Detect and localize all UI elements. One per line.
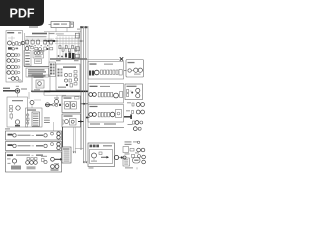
label: note right 3 xyxy=(44,122,50,123)
box: br small xyxy=(123,147,129,153)
wire: rail y95 xyxy=(44,94,66,96)
relay RY4 xyxy=(44,39,47,46)
jack banner-tape A-4 xyxy=(57,136,60,139)
jack J33 xyxy=(51,165,55,169)
wire: vertical pair a xyxy=(73,127,75,152)
diode D4 xyxy=(27,122,29,124)
label: figure title xyxy=(29,26,38,27)
node d xyxy=(121,156,123,158)
diode D3 xyxy=(27,114,29,116)
resistor Rg6 xyxy=(75,48,77,51)
resistor Rq1 xyxy=(98,112,100,117)
transformer T1 xyxy=(16,106,21,110)
jack J21 xyxy=(141,148,145,152)
relay RY9 xyxy=(70,119,77,126)
node f xyxy=(140,121,143,124)
label: below control xyxy=(89,167,94,168)
resistor Ro6 xyxy=(116,70,118,74)
node rail-b xyxy=(53,40,55,42)
resistor R17 xyxy=(74,83,77,86)
label: relay A title xyxy=(64,97,80,99)
label: aux c xyxy=(128,124,133,125)
label: legend row 1 xyxy=(28,69,45,70)
bus wire 4 xyxy=(87,26,89,128)
label: switch title xyxy=(27,109,36,110)
wire: vertical v4 xyxy=(65,37,67,60)
node mid2 xyxy=(34,45,35,46)
wire: mains drop 1 xyxy=(55,28,57,32)
terminal block TB2 xyxy=(120,92,123,98)
wire: vertical pair b xyxy=(74,127,76,152)
jack J10 xyxy=(134,68,138,72)
jack J20 xyxy=(137,148,141,152)
terminal block TB1 xyxy=(119,70,122,76)
wire: vertical v1 xyxy=(56,37,58,60)
resistor Rg2 xyxy=(62,48,64,51)
box: protection unit xyxy=(32,75,50,92)
label: sw row 6 xyxy=(33,124,38,127)
capacitor C52 xyxy=(35,158,38,161)
wire: thick supply bar xyxy=(31,90,88,92)
node e xyxy=(131,92,133,94)
box: banner tape A xyxy=(6,131,62,140)
label: fuse value xyxy=(21,88,27,89)
inductor L2 xyxy=(114,93,119,98)
node grid-b xyxy=(61,56,63,58)
transistor Q6 xyxy=(55,100,59,104)
label: legend row 2 xyxy=(28,71,46,72)
resistor Rq3 xyxy=(104,112,106,117)
box: aux right c xyxy=(75,54,79,58)
capacitor C13 xyxy=(64,79,67,82)
wire: hp dash xyxy=(132,70,134,72)
box: connector bank xyxy=(49,62,56,77)
resistor Rq2 xyxy=(101,112,103,117)
capacitor C1 xyxy=(12,43,15,46)
wire: stub y117.5 xyxy=(86,117,90,119)
box: main amp xyxy=(56,64,80,90)
label: brl row 1 xyxy=(124,158,128,161)
label: under rail b xyxy=(74,60,79,61)
box: divider xyxy=(35,59,42,64)
bus wire 1 xyxy=(80,26,82,150)
label: list title xyxy=(63,148,70,149)
wire: relay B ticks xyxy=(63,119,65,125)
capacitor C12 xyxy=(64,73,67,76)
wire: block left edge xyxy=(24,33,26,66)
wire: h-rail 3 xyxy=(55,43,80,45)
contact pair 1 xyxy=(50,64,55,66)
jack banner-tape B-2 xyxy=(44,144,47,147)
box: br lower xyxy=(123,158,130,166)
fuse X mark xyxy=(120,57,123,60)
node mid4 xyxy=(47,45,48,46)
label: sw row 3 xyxy=(33,117,38,120)
resistor R30 xyxy=(99,152,102,155)
PDF badge text xyxy=(10,7,35,21)
resistor Ro4 xyxy=(110,70,112,74)
contact grid row 2 xyxy=(58,72,63,74)
label: under rail a xyxy=(56,60,61,61)
label: mid smudge b xyxy=(38,50,45,53)
connector X1 end cap xyxy=(70,22,74,27)
wire: stub y148.5 xyxy=(75,148,84,150)
capacitor C7 xyxy=(31,47,34,49)
label: br mid xyxy=(125,153,130,154)
resistor R50 xyxy=(42,159,45,162)
label: phono bold xyxy=(7,154,13,156)
wire: vertical v6 xyxy=(71,37,73,60)
resistor R16 xyxy=(74,75,77,78)
box: relay inner xyxy=(36,80,44,88)
wire: vertical v2 xyxy=(59,37,61,60)
label: bus tag xyxy=(77,29,80,30)
resistor R9 xyxy=(50,48,53,50)
resistor R12 xyxy=(69,74,72,77)
wire: link up xyxy=(34,99,41,101)
box: aux right a xyxy=(75,33,79,38)
resistor Rg3 xyxy=(65,46,67,49)
box: input module A1 xyxy=(6,31,23,83)
wire: vertical v5 xyxy=(68,37,70,60)
bus arrowhead 1 xyxy=(83,162,85,164)
label: banner text2 tape A xyxy=(36,135,43,136)
wire: banner dash tape A xyxy=(32,134,35,136)
capacitor C31 xyxy=(123,156,126,159)
capacitor bank C9 xyxy=(65,53,67,57)
wire: stub y103.8 xyxy=(81,103,89,105)
relay RY7 xyxy=(65,102,71,110)
wire: vertical v8 xyxy=(77,37,79,60)
capacitor C51 xyxy=(31,158,34,161)
jack J30 xyxy=(26,161,30,165)
jack banner-tape A-2 xyxy=(44,134,47,137)
wire: dark rail y41 xyxy=(25,40,84,42)
label: q6 tag xyxy=(54,98,59,99)
jack J22 xyxy=(142,155,146,159)
wire stub left of strip X1 xyxy=(49,24,52,26)
node h xyxy=(52,104,54,106)
wire: module out xyxy=(24,42,27,44)
wire: chain dash xyxy=(119,157,121,159)
label: main amp title xyxy=(63,66,76,68)
resistor R33 xyxy=(127,90,129,93)
label: br note2 xyxy=(125,144,132,145)
arrowhead pair a xyxy=(73,152,75,154)
regulator VR1 xyxy=(15,120,20,127)
label: osc note xyxy=(35,56,42,57)
capacitor C50 xyxy=(27,158,30,161)
wire: h-rail 1 xyxy=(55,37,80,39)
label: power supply title xyxy=(12,100,23,101)
jack J31 xyxy=(30,161,34,165)
wire: phono dash xyxy=(32,154,34,156)
ground hatch 1 xyxy=(11,166,21,170)
label: phono text xyxy=(16,155,30,156)
label: reg row 4 xyxy=(25,61,29,62)
label: note right 1 xyxy=(44,117,50,118)
label: supply sub xyxy=(26,36,47,37)
resistor R35 xyxy=(132,103,134,106)
box: driver inner xyxy=(116,110,122,118)
wire: vertical v3 xyxy=(62,37,64,60)
label: q8 tag xyxy=(91,161,97,162)
inductor L3 xyxy=(110,112,115,117)
wire: mic link xyxy=(130,90,132,92)
node n3 xyxy=(17,66,20,68)
transistor Q8 xyxy=(92,153,97,161)
resistor R8 xyxy=(44,47,47,50)
wire: drop x29 xyxy=(28,92,30,99)
box: output unit R xyxy=(88,84,124,104)
diode D5 xyxy=(59,104,61,106)
box: speaker relay B xyxy=(62,114,81,127)
crystal Y1 xyxy=(34,52,42,55)
capacitor bank C10 xyxy=(68,53,71,59)
resistor Rq4 xyxy=(108,112,110,117)
label: supply unit xyxy=(32,33,55,35)
label: fuse top xyxy=(16,86,19,87)
label: br bottom xyxy=(125,167,137,169)
resistor Rg4 xyxy=(68,49,70,52)
jack J16 xyxy=(136,110,140,114)
dip switch S1 xyxy=(90,145,100,148)
contact pair 2 xyxy=(50,67,55,69)
label: list row 1 xyxy=(64,150,70,153)
rectifier D1 xyxy=(10,106,13,112)
node mid3 xyxy=(41,45,42,46)
node n4 xyxy=(17,71,20,73)
capacitor C14 xyxy=(74,78,77,81)
label: output R title xyxy=(90,86,111,87)
resistor Ro1 xyxy=(101,70,103,74)
capacitor bank C20 xyxy=(89,71,91,76)
jack J3 xyxy=(7,65,15,69)
box: legend xyxy=(26,68,49,77)
node b xyxy=(47,48,49,50)
label: list row 3 xyxy=(64,154,70,157)
wire: under rule xyxy=(88,127,124,129)
jack J15 xyxy=(141,103,145,107)
wire: top link xyxy=(86,59,120,61)
label: reg row 1 xyxy=(25,52,30,53)
capacitor C33 xyxy=(128,69,131,72)
label: legend row 3 xyxy=(28,73,43,74)
label: brl row 3 xyxy=(124,163,128,166)
wire: stub y41 xyxy=(79,40,84,42)
capacitor C5 xyxy=(10,112,13,120)
label: br note3 xyxy=(133,141,140,143)
jack J0 xyxy=(21,41,24,44)
resistor R36 xyxy=(132,111,134,114)
svg-text:PDF: PDF xyxy=(10,7,35,21)
relay RY2 xyxy=(31,39,34,46)
contact grid row 1 xyxy=(58,69,63,71)
relay RY8 xyxy=(71,102,77,110)
wire: banner dash tape B xyxy=(32,145,35,147)
resistor Rp4 xyxy=(108,92,110,97)
resistor R4 xyxy=(15,65,17,68)
wire: mains drop 2 xyxy=(66,28,68,32)
wire: drop x57 xyxy=(56,95,58,99)
jack J4 xyxy=(7,71,15,75)
jack J5 row xyxy=(8,77,21,83)
jack J19 xyxy=(133,127,137,131)
wire: dark drop x62.5 xyxy=(62,127,64,147)
wire: signal arrow xyxy=(101,156,109,159)
box: adjust list xyxy=(62,147,71,163)
label: phono left a xyxy=(7,158,11,159)
arrowhead pair b xyxy=(74,152,76,154)
resistor R3 xyxy=(15,59,17,62)
node i xyxy=(55,104,57,106)
label: br note1 xyxy=(125,141,132,142)
capacitor C8 xyxy=(39,48,42,51)
jack J12 xyxy=(136,88,140,92)
label: list row 2 xyxy=(64,152,70,155)
jack banner-tape B-4 xyxy=(57,146,60,149)
resistor Rp3 xyxy=(104,92,106,97)
node banner-tape B xyxy=(51,143,54,146)
PDF badge background xyxy=(0,0,44,26)
resistor Ro3 xyxy=(107,70,109,74)
label: supply sub2 xyxy=(56,33,64,34)
node a xyxy=(18,43,21,46)
label: reg row 5 xyxy=(25,64,30,65)
resistor Rg1 xyxy=(59,46,61,49)
resistor Rp5 xyxy=(111,92,113,97)
box: headphone unit xyxy=(126,60,144,78)
label: reg row 2 xyxy=(25,55,29,56)
transistor Q5 xyxy=(30,101,34,109)
wire: right block edge xyxy=(78,32,80,59)
relay RY5 xyxy=(50,39,53,46)
contact pair 3 xyxy=(50,70,55,72)
capacitor bank C11 xyxy=(72,53,75,59)
wire: vertical v7 xyxy=(74,37,76,60)
label: banner bold tape A xyxy=(8,134,13,136)
node grid-a xyxy=(58,55,60,57)
jack J2 xyxy=(7,59,15,63)
jack banner-tape A-1 xyxy=(13,134,16,137)
node mid1 xyxy=(29,45,30,46)
node g xyxy=(138,127,141,130)
wire: thick right feed xyxy=(124,114,132,119)
label: headphone title xyxy=(128,62,135,63)
capacitor C53 xyxy=(44,160,47,163)
node rail-a xyxy=(47,40,49,42)
label: banner text tape B xyxy=(18,145,31,146)
label: list row 6 xyxy=(64,160,70,163)
jack banner-tape B-1 xyxy=(13,144,16,147)
box: aux right b xyxy=(75,47,79,51)
resistor R13 xyxy=(69,79,72,82)
diode D0 cluster xyxy=(8,47,18,50)
label: brl row 2 xyxy=(124,161,128,164)
bus wire 3 xyxy=(85,26,87,163)
box: oscillator xyxy=(33,51,44,59)
label: relay B title xyxy=(64,115,73,116)
wire: stub y31.8 xyxy=(79,31,81,33)
fuse F1 xyxy=(15,89,19,93)
contact pair 4 xyxy=(50,73,55,75)
label: sw row 5 xyxy=(33,121,38,124)
label: psu note xyxy=(5,128,10,129)
jack banner-tape A-3 xyxy=(57,132,60,135)
resistor R37 xyxy=(133,121,135,124)
bus arrowhead 2 xyxy=(85,162,87,164)
wire: relay rail xyxy=(25,38,54,40)
wire: fuse down xyxy=(17,93,19,97)
label: aux b xyxy=(126,110,130,111)
wire: module internal xyxy=(8,36,15,42)
capacitor bank C21 xyxy=(92,71,94,76)
transistor Q2 xyxy=(25,47,29,51)
label: sw row 1 xyxy=(33,112,38,115)
ground hatch 2 xyxy=(27,166,36,169)
box: mic unit xyxy=(125,84,143,100)
jack J32 xyxy=(34,161,38,165)
capacitor C22 xyxy=(89,93,93,97)
box: speaker relay A xyxy=(62,96,81,113)
label: note right 2 xyxy=(44,120,50,121)
resistor R14 xyxy=(70,84,73,88)
ground hatch 3 xyxy=(51,169,59,171)
box: control inner xyxy=(90,150,113,164)
node c xyxy=(66,84,68,86)
label: sw row 2 xyxy=(33,115,38,118)
capacitor C23 xyxy=(93,93,97,97)
inductor L1 xyxy=(95,70,100,75)
relay RY3 xyxy=(37,39,40,46)
oscillator G1 xyxy=(133,158,141,164)
wire: hp stub in xyxy=(124,70,127,72)
box: banner tape B xyxy=(6,142,62,151)
bus top tick 2 xyxy=(84,26,87,28)
relay RY6 xyxy=(36,82,44,86)
resistor R5 xyxy=(15,71,17,74)
wire: drop x44 xyxy=(43,92,45,96)
resistor R1 xyxy=(16,42,18,45)
motor M2 xyxy=(12,159,16,165)
box: switch unit xyxy=(26,108,43,127)
label: br tag xyxy=(135,152,139,153)
label: legend row 4 xyxy=(28,75,46,76)
label: banner text2 tape B xyxy=(36,145,43,146)
jack J14 xyxy=(136,103,140,107)
capacitor C25 xyxy=(93,113,97,117)
resistor Rp1 xyxy=(98,92,100,97)
label: banner text tape A xyxy=(18,135,31,136)
jack J23 xyxy=(142,160,146,164)
wire: relay stub xyxy=(62,103,65,105)
label: hp note xyxy=(134,74,141,75)
box: control unit xyxy=(88,143,115,167)
node n1 xyxy=(17,54,20,56)
jack J1 xyxy=(7,53,15,57)
resistor R41 xyxy=(132,154,135,157)
capacitor C30 xyxy=(114,155,118,159)
label: input module title xyxy=(7,32,21,34)
label: under row xyxy=(90,123,116,124)
wire: arrow to list xyxy=(55,158,63,161)
label: aux a xyxy=(127,102,131,103)
capacitor C16 xyxy=(27,118,29,120)
motor M1 xyxy=(65,120,69,124)
wire: double rule xyxy=(24,65,49,67)
resistor R40 xyxy=(130,148,134,151)
connector strip X1 xyxy=(51,22,70,28)
